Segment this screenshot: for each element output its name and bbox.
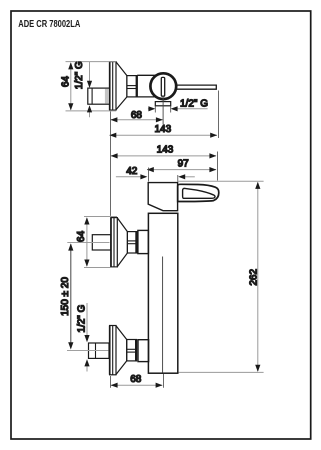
svg-text:143: 143	[157, 145, 174, 156]
svg-text:64: 64	[76, 230, 87, 242]
dim 1/2"G inlet (top view)	[74, 61, 92, 117]
handle lever (bottom view)	[178, 184, 219, 201]
extension line body-left	[148, 168, 150, 182]
dim 64 (bottom view)	[76, 217, 117, 268]
outlet stub 1/2G (top view)	[155, 102, 170, 106]
body inner highlight line	[162, 257, 164, 373]
handle inner wedge	[183, 188, 215, 198]
dim 1/2"G outlet stub label (top view)	[148, 98, 208, 111]
union nut	[138, 340, 149, 362]
inlet pipe	[92, 235, 111, 250]
svg-text:97: 97	[178, 158, 190, 169]
svg-text:262: 262	[249, 269, 260, 286]
svg-text:150 ± 20: 150 ± 20	[60, 277, 71, 316]
svg-text:ADE CR 78002LA: ADE CR 78002LA	[18, 19, 80, 30]
right extension line (pipe end)	[217, 91, 219, 139]
main body (bottom view)	[148, 213, 177, 373]
ring section	[127, 340, 137, 361]
handle slot (top view)	[161, 77, 164, 96]
ring section (top view)	[127, 76, 137, 97]
union nut	[138, 230, 149, 253]
dim 143 (top view)	[109, 124, 217, 138]
dim 97 (bottom view)	[147, 158, 217, 172]
dim 262 (right)	[178, 181, 264, 372]
inlet pipe into wall (top view)	[88, 88, 110, 104]
svg-text:64: 64	[60, 76, 71, 88]
svg-text:68: 68	[131, 110, 143, 121]
stub extension lines	[155, 106, 170, 113]
ring section	[127, 232, 137, 253]
valve body lines to circle (top view)	[137, 75, 156, 97]
dim 1/2"G (lower union)	[76, 303, 89, 372]
dim 150 ± 20	[60, 243, 73, 349]
wall flange (top view)	[110, 62, 116, 111]
pipe centerline (serves as 150-dim bottom tick)	[67, 350, 109, 352]
outlet pipe to right (top view)	[176, 85, 217, 90]
svg-text:68: 68	[130, 374, 142, 385]
svg-text:1/2" G: 1/2" G	[76, 304, 87, 332]
dim 64 (top view, left)	[60, 62, 116, 111]
svg-text:143: 143	[154, 124, 171, 135]
flange	[110, 326, 116, 375]
dim 68 (bottom view)	[111, 374, 164, 388]
cartridge cap (bottom view)	[148, 183, 177, 211]
svg-text:1/2" G: 1/2" G	[180, 98, 208, 109]
pipe centerline (serves as 150-dim top tick)	[67, 242, 109, 244]
svg-text:42: 42	[126, 166, 138, 177]
cone (top view)	[116, 62, 127, 110]
dim 42 (bottom view, arrows outside)	[116, 166, 195, 180]
cone	[116, 326, 127, 375]
inlet pipe	[89, 343, 110, 358]
dim 143 (bottom view)	[111, 145, 217, 159]
handle circle (top view)	[150, 73, 176, 99]
wall extension line	[110, 112, 112, 216]
flange	[111, 218, 117, 267]
dim 68 (top view)	[110, 110, 162, 123]
cone	[117, 218, 127, 267]
extension line body-right	[177, 175, 179, 182]
extension lines right (143/97)	[217, 152, 219, 181]
centerline through stub	[162, 95, 164, 124]
svg-text:1/2" G: 1/2" G	[74, 61, 85, 89]
